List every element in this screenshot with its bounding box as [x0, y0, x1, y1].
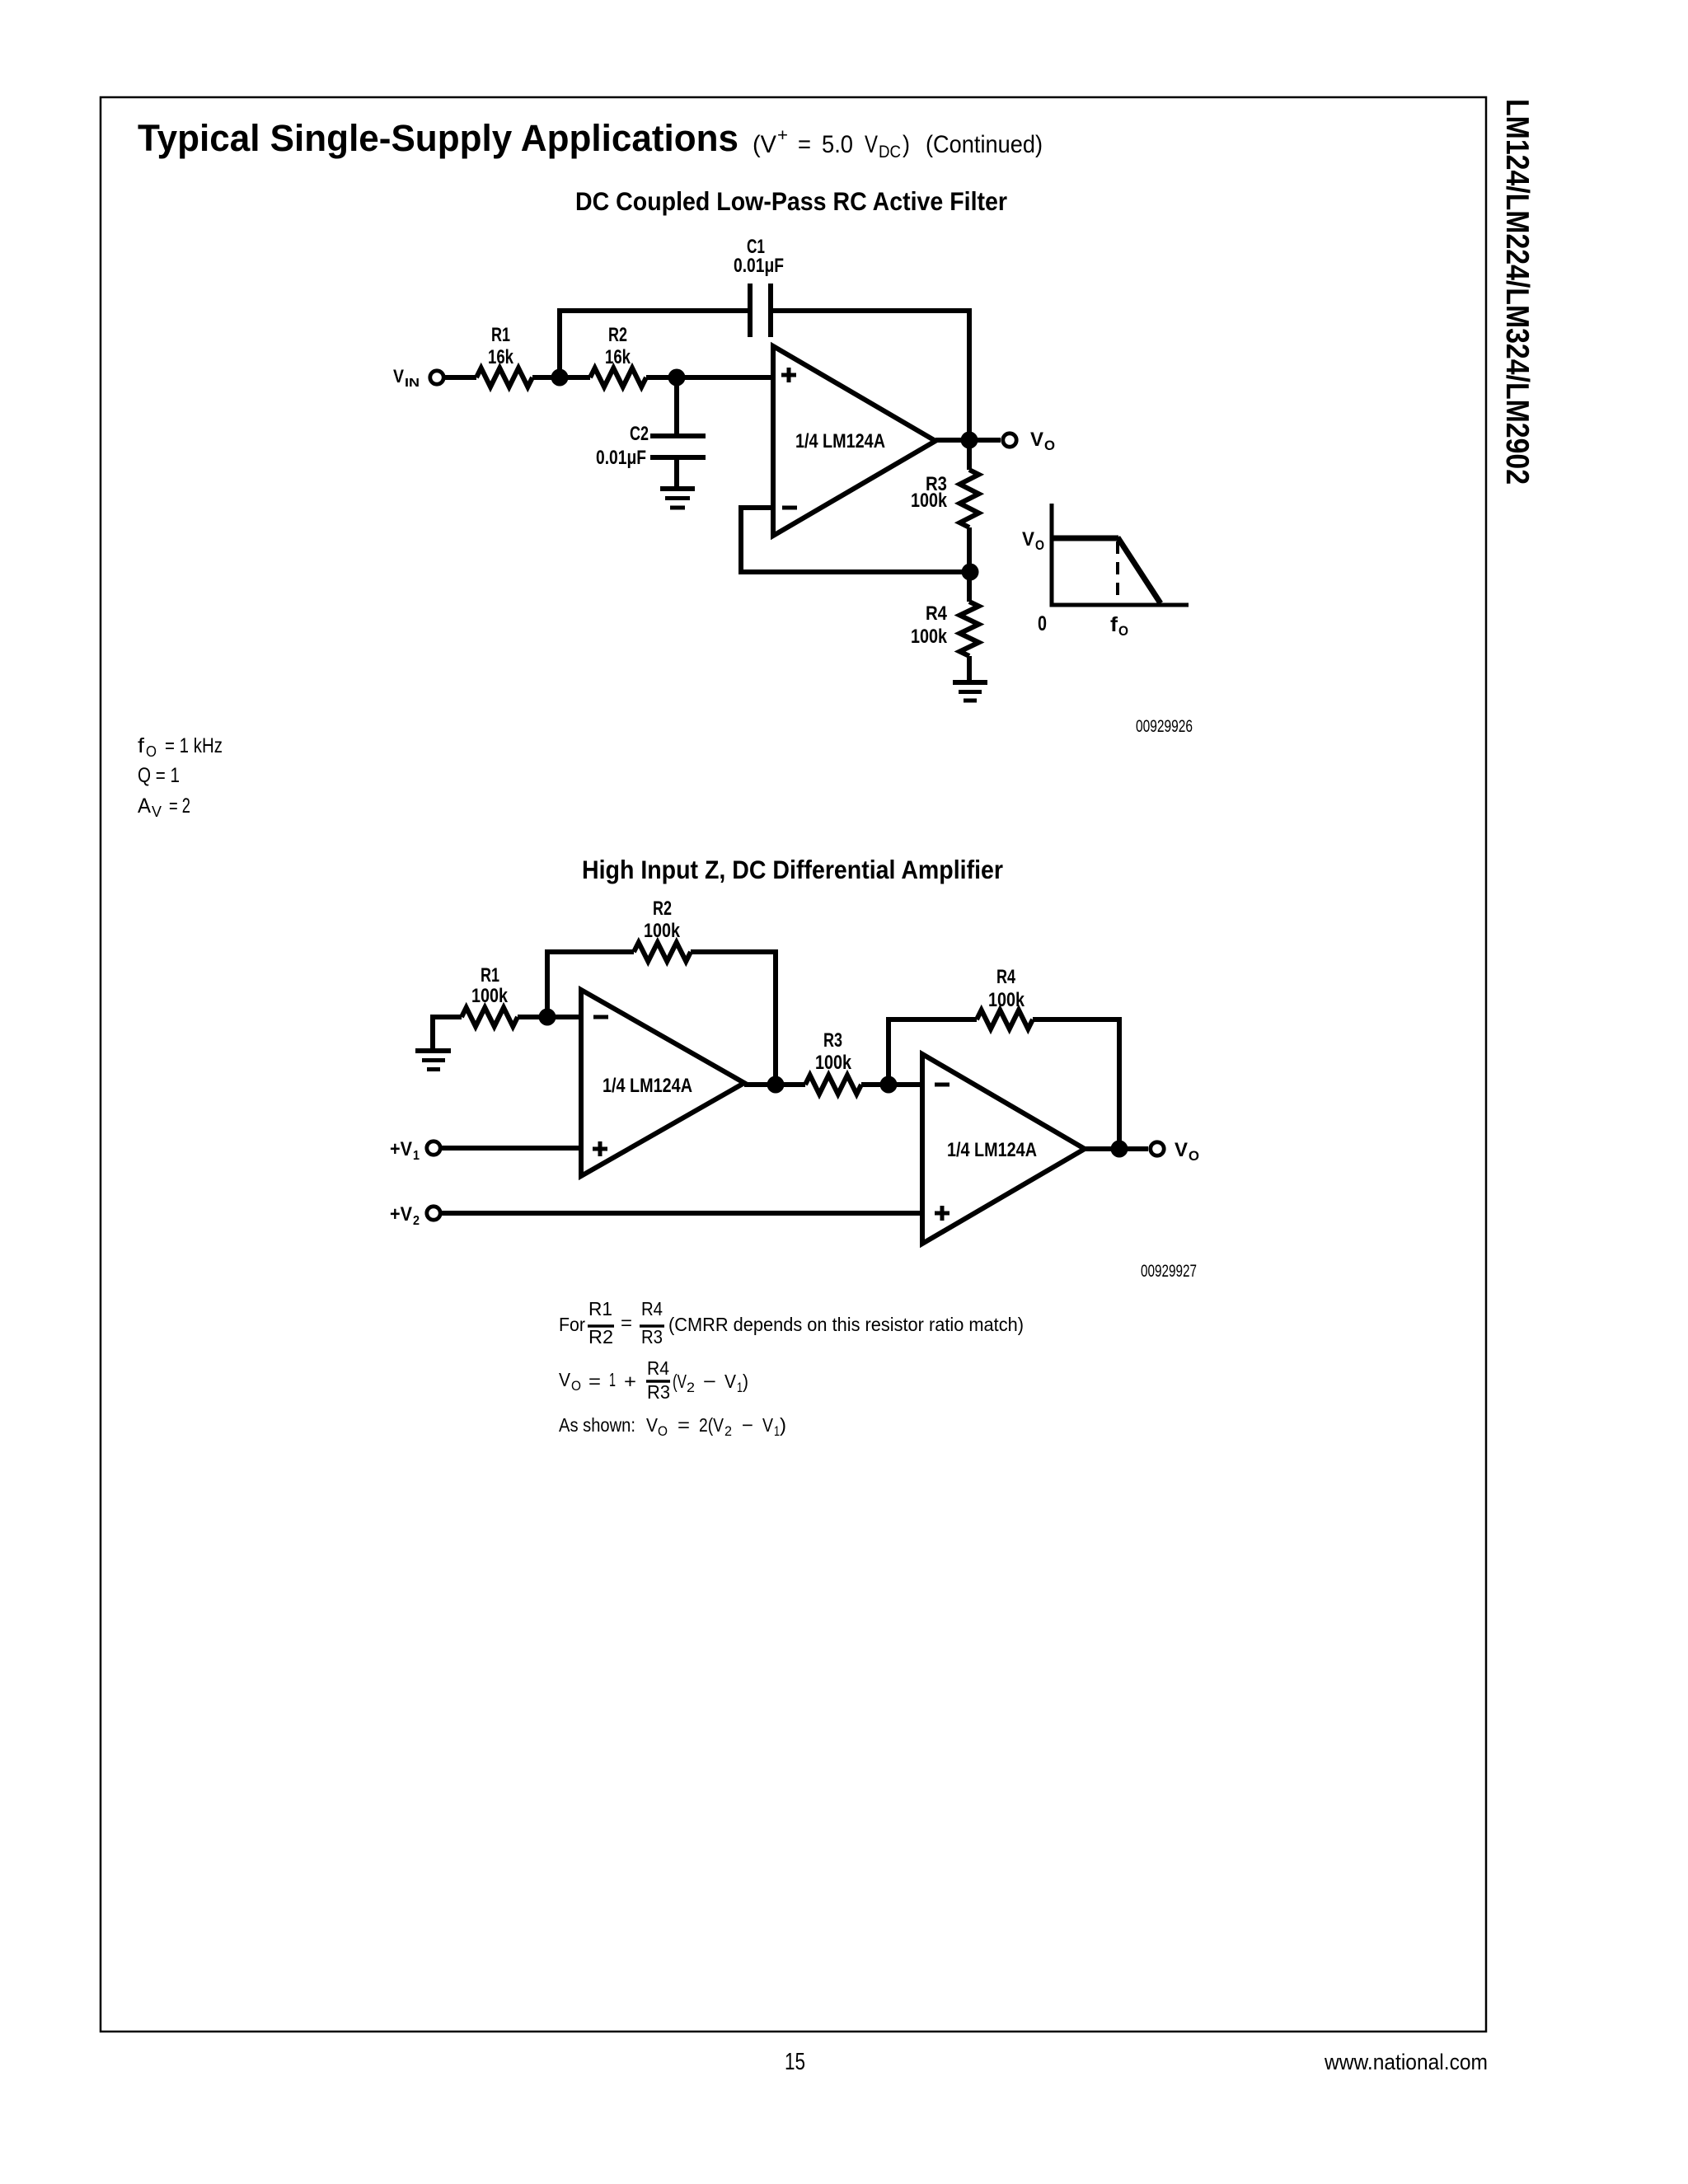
node B junction [880, 1076, 898, 1094]
node 1 junction [551, 369, 569, 387]
svg-text:V: V [1022, 528, 1034, 551]
svg-text:2: 2 [413, 1214, 420, 1228]
svg-text:R3: R3 [823, 1029, 842, 1052]
svg-text:): ) [743, 1371, 748, 1392]
svg-text:R1: R1 [588, 1298, 612, 1319]
svg-text:=: = [588, 1371, 601, 1392]
node 2 junction [668, 369, 686, 387]
wire node A to R3 [776, 1082, 805, 1087]
wire R1 to node1 [518, 1015, 581, 1019]
wire node1 up and over to R2 [547, 952, 634, 1017]
wire node1 up to C1 [560, 311, 748, 377]
svg-text:): ) [780, 1414, 786, 1436]
output node junction [961, 432, 978, 449]
svg-text:O: O [1189, 1148, 1199, 1164]
svg-text:O: O [658, 1423, 668, 1439]
svg-text:2: 2 [687, 1380, 695, 1395]
svg-text:0: 0 [1038, 612, 1047, 635]
svg-text:= 1 kHz: = 1 kHz [165, 734, 223, 757]
svg-text:O: O [1118, 623, 1128, 639]
svg-text:V: V [762, 1414, 774, 1436]
svg-text:IN: IN [405, 376, 420, 390]
svg-text:+V: +V [390, 1203, 412, 1226]
terminal +V1 [427, 1141, 440, 1155]
svg-text:A: A [138, 794, 151, 818]
wire node3 to R4 [967, 572, 972, 602]
svg-text:V: V [559, 1369, 571, 1390]
resistor R1 [476, 368, 532, 387]
svg-text:00929927: 00929927 [1141, 1262, 1197, 1281]
wire VIN to R1 [445, 375, 476, 380]
svg-text:2: 2 [724, 1423, 732, 1439]
svg-text:16k: 16k [605, 346, 631, 368]
svg-text:1: 1 [737, 1380, 743, 1395]
node A junction [767, 1076, 785, 1094]
svg-text:V: V [152, 804, 162, 820]
svg-text:100k: 100k [988, 989, 1025, 1011]
node 1 junction (R1/R2) [539, 1009, 556, 1026]
svg-text:−: − [742, 1414, 753, 1436]
ground at R1 input [415, 1048, 451, 1053]
svg-text:1/4 LM124A: 1/4 LM124A [795, 430, 885, 452]
output node junction [1111, 1141, 1128, 1158]
resistor R3 [960, 470, 979, 527]
wire node1 to R2 [560, 375, 590, 380]
svg-text:For: For [559, 1314, 585, 1335]
terminal VO [1151, 1142, 1164, 1155]
svg-text:): ) [903, 131, 910, 158]
svg-text:DC Coupled Low-Pass RC Active: DC Coupled Low-Pass RC Active Filter [575, 186, 1007, 216]
wire node2 to op-amp noninverting input [646, 375, 772, 380]
svg-text:R3: R3 [647, 1381, 670, 1403]
op-amp U3 1/4 LM124A triangle [922, 1054, 1085, 1244]
wire op-amp U2 output to node A [744, 1082, 776, 1087]
svg-text:(CMRR depends on this resistor: (CMRR depends on this resistor ratio mat… [668, 1314, 1024, 1335]
wire node2 down to C2 [674, 377, 679, 434]
resistor R2 [590, 368, 646, 387]
svg-text:Typical Single-Supply Applicat: Typical Single-Supply Applications [138, 117, 738, 159]
svg-text:As shown:: As shown: [559, 1414, 635, 1436]
svg-text:R4: R4 [647, 1357, 669, 1379]
svg-text:+: + [624, 1371, 636, 1392]
wire C1 to output feedback [773, 311, 969, 440]
op-amp U2 1/4 LM124A triangle [581, 990, 744, 1176]
wire op-amp output to VO [935, 438, 1001, 443]
svg-text:= 2: = 2 [169, 794, 190, 818]
svg-text:R4: R4 [641, 1298, 663, 1319]
svg-text:V: V [1175, 1139, 1188, 1161]
resistor R3 [805, 1076, 861, 1094]
svg-text:16k: 16k [488, 346, 514, 368]
svg-text:R2: R2 [588, 1326, 613, 1347]
svg-text:2(V: 2(V [699, 1414, 724, 1436]
resistor R4 [977, 1010, 1033, 1029]
op-amp minus symbol [782, 506, 797, 510]
svg-text:=: = [621, 1312, 632, 1333]
wire +V2 to op-amp U3 noninverting input [442, 1211, 922, 1216]
node 3 junction [962, 564, 979, 581]
svg-text:LM124/LM224/LM324/LM2902: LM124/LM224/LM324/LM2902 [1499, 99, 1535, 485]
op-amp U3 minus symbol [935, 1083, 949, 1087]
svg-text:1/4 LM124A: 1/4 LM124A [603, 1075, 692, 1097]
resistor R2 [634, 943, 691, 962]
op-amp U3 plus symbol [935, 1212, 949, 1216]
svg-text:100k: 100k [911, 626, 948, 648]
svg-text:V: V [646, 1414, 659, 1436]
ground below C2 [660, 486, 695, 491]
wire node B to op-amp U3 inverting input [889, 1082, 922, 1087]
svg-text:R2: R2 [653, 898, 672, 920]
svg-text:1/4 LM124A: 1/4 LM124A [947, 1139, 1037, 1161]
svg-text:V: V [865, 131, 878, 158]
wire +V1 to op-amp noninverting input [442, 1146, 581, 1151]
svg-text:High Input Z, DC Differential: High Input Z, DC Differential Amplifier [582, 855, 1003, 884]
svg-text:Q = 1: Q = 1 [138, 764, 180, 787]
svg-text:(V: (V [753, 131, 776, 158]
page frame [101, 97, 1486, 2032]
svg-text:(V: (V [673, 1371, 687, 1392]
svg-text:O: O [571, 1378, 581, 1394]
svg-text:1: 1 [609, 1369, 616, 1390]
svg-text:+: + [777, 126, 788, 145]
op-amp U1 1/4 LM124A triangle [773, 346, 935, 536]
svg-text:V: V [724, 1371, 737, 1392]
wire op-amp U3 output to VO [1085, 1146, 1148, 1151]
svg-text:100k: 100k [471, 985, 509, 1007]
frequency response graph [1050, 504, 1189, 607]
svg-text:=: = [798, 131, 811, 158]
wire R4 down to output node [1033, 1019, 1119, 1150]
terminal +V2 [427, 1207, 440, 1220]
svg-text:+V: +V [390, 1138, 412, 1160]
svg-text:15: 15 [785, 2049, 805, 2075]
op-amp U2 minus symbol [593, 1015, 608, 1019]
inverting input feedback loop wire [741, 508, 970, 572]
svg-text:100k: 100k [644, 920, 681, 942]
svg-text:R4: R4 [996, 966, 1015, 988]
terminal VO [1003, 434, 1016, 447]
wire R3 to node3 [967, 527, 972, 572]
wire R3 to node B [861, 1082, 889, 1087]
svg-text:O: O [1044, 438, 1055, 453]
svg-text:00929926: 00929926 [1136, 717, 1193, 736]
wire ground up to R1 [433, 1017, 462, 1048]
wire R2 down to node A [691, 952, 776, 1085]
resistor R4 [960, 602, 979, 656]
capacitor C1 [748, 284, 753, 337]
svg-text:R4: R4 [926, 602, 948, 625]
wire C2 to ground [674, 460, 679, 486]
svg-text:f: f [1110, 613, 1118, 636]
svg-text:5.0: 5.0 [822, 131, 853, 158]
svg-text:f: f [138, 734, 144, 757]
wire R1 to node1 [532, 375, 560, 380]
svg-text:=: = [678, 1414, 690, 1436]
svg-text:100k: 100k [911, 490, 948, 512]
svg-text:DC: DC [879, 143, 901, 162]
wire output node to R3 [967, 440, 972, 470]
svg-text:R1: R1 [491, 324, 510, 346]
svg-text:R3: R3 [641, 1326, 663, 1347]
op-amp U2 plus symbol [593, 1147, 607, 1151]
svg-text:−: − [703, 1371, 716, 1392]
svg-text:0.01μF: 0.01μF [596, 447, 646, 469]
ground below R4 [953, 680, 987, 685]
svg-text:R1: R1 [481, 964, 499, 987]
svg-text:www.national.com: www.national.com [1324, 2050, 1488, 2074]
svg-text:0.01μF: 0.01μF [734, 255, 784, 277]
svg-text:100k: 100k [815, 1052, 852, 1074]
svg-text:(Continued): (Continued) [926, 131, 1043, 158]
resistor R1 [462, 1008, 518, 1027]
svg-text:V: V [393, 366, 404, 387]
op-amp plus symbol [781, 368, 797, 508]
terminal VIN [430, 371, 443, 384]
svg-text:C2: C2 [630, 423, 649, 445]
svg-text:R2: R2 [608, 324, 627, 346]
svg-text:1: 1 [413, 1149, 420, 1163]
svg-text:O: O [1035, 537, 1044, 553]
svg-text:V: V [1030, 429, 1043, 451]
capacitor C2 [650, 434, 706, 438]
svg-text:O: O [146, 743, 157, 760]
wire R4 to ground [967, 656, 972, 681]
wire node B up and over to R4 [889, 1019, 977, 1085]
svg-text:1: 1 [774, 1423, 780, 1439]
